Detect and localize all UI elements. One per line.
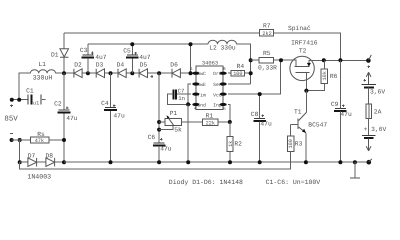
pin 6 Vcc (220, 60, 281, 95)
svg-text:1n: 1n (178, 95, 185, 102)
node SwC top junction (189, 42, 193, 46)
svg-text:C4: C4 (101, 100, 109, 107)
svg-text:R6: R6 (330, 73, 338, 80)
resistor R4 (228, 63, 251, 77)
battery charge direction arrow up (363, 72, 371, 84)
resistor R5 (251, 50, 294, 71)
node T2 gate / T1 collector junction (304, 89, 308, 93)
svg-text:SwE: SwE (197, 82, 206, 88)
note capacitor voltage (266, 179, 321, 186)
node output plus terminal (366, 55, 371, 68)
svg-text:D7: D7 (28, 153, 36, 160)
wire input column x=64 down to bottom rail (63, 73, 65, 162)
pin 1 SwC (190, 67, 199, 75)
svg-text:D6: D6 (170, 62, 178, 69)
wire L1 left lead down to plus terminal (19, 73, 30, 100)
svg-text:L1: L1 (38, 61, 46, 68)
battery B1 3.6V (362, 85, 386, 96)
resistor R2 (227, 122, 242, 162)
capacitor C2 (54, 101, 78, 123)
capacitor C5 (123, 44, 151, 73)
wire C1 right stub (42, 99, 45, 101)
svg-text:D1: D1 (51, 51, 59, 58)
resistor Rs (20, 131, 64, 144)
capacitor C3 (80, 44, 107, 73)
svg-text:Spínač: Spínač (288, 25, 311, 32)
diode D4 (117, 62, 127, 78)
node pin1 junction (189, 71, 193, 75)
wire multiplier output column down to P1 and C6 (158, 73, 160, 142)
capacitor C7 (167, 88, 191, 105)
diode D2 (74, 62, 82, 78)
potentiometer P1 (159, 110, 202, 134)
svg-text:85V: 85V (4, 115, 18, 123)
svg-text:1N4003: 1N4003 (27, 174, 51, 181)
wire Gnd column to bottom rail (187, 104, 189, 162)
wire ground return lower line (20, 162, 291, 169)
svg-text:IRF7416: IRF7416 (291, 39, 318, 46)
wire Spinac label (288, 25, 311, 32)
svg-text:47u: 47u (160, 145, 172, 152)
svg-text:C8: C8 (251, 111, 259, 118)
svg-text:Gnd: Gnd (197, 103, 206, 109)
svg-text:C1: C1 (26, 87, 34, 94)
diode D6 (170, 62, 180, 78)
svg-text:C6: C6 (148, 134, 156, 141)
svg-text:47u: 47u (260, 120, 272, 127)
node C5 top junction (130, 42, 134, 46)
fuse 2A (366, 88, 382, 135)
wire bottom rail (64, 161, 369, 163)
note diode types (169, 179, 243, 186)
svg-text:D8: D8 (46, 153, 54, 160)
svg-text:R2: R2 (234, 140, 242, 147)
node rail junction C4 (109, 160, 113, 164)
svg-text:1k: 1k (228, 141, 234, 147)
svg-text:10k: 10k (322, 71, 328, 80)
node rail junction C6 (157, 160, 161, 164)
svg-text:34063: 34063 (202, 61, 218, 67)
node R4/sense column junction (249, 71, 253, 75)
wire top line from D1 to R7 (64, 32, 259, 34)
pin 5 Inp (220, 103, 230, 122)
diode D1 (51, 33, 69, 73)
svg-text:2A: 2A (374, 108, 382, 115)
svg-text:100: 100 (288, 139, 294, 148)
diode D3 (96, 62, 105, 78)
node output minus terminal (367, 159, 372, 165)
svg-text:P1: P1 (170, 110, 178, 117)
capacitor C8 (251, 94, 272, 162)
node R6 top junction (322, 58, 326, 62)
node Rs right junction (62, 138, 66, 142)
node D8 cathode junction (62, 160, 66, 164)
capacitor C4 (101, 73, 125, 162)
pin 3 Tim (192, 93, 199, 96)
svg-text:D2: D2 (74, 62, 82, 69)
resistor R3 (287, 125, 302, 163)
svg-text:u1: u1 (33, 100, 39, 106)
diode D5 (139, 62, 147, 78)
wire plus input to C1 (12, 99, 28, 101)
svg-text:+ 3,6V: + 3,6V (364, 126, 387, 133)
diode D8 (27, 153, 64, 181)
svg-text:R3: R3 (295, 140, 303, 147)
svg-text:T1: T1 (294, 108, 302, 115)
resistor R6 (306, 60, 337, 90)
svg-text:C1-C6: Un=100V: C1-C6: Un=100V (266, 179, 321, 186)
svg-text:47k: 47k (35, 138, 44, 144)
svg-text:4u7: 4u7 (139, 54, 151, 61)
svg-text:0,33R: 0,33R (258, 64, 277, 71)
node D3/C4 junction (109, 71, 113, 75)
node rail junction C9 (338, 160, 342, 164)
transistor T1 BC547 (291, 91, 328, 163)
node D7 anode junction (18, 160, 22, 164)
svg-text:R1: R1 (206, 112, 214, 119)
wire diode row y=73.2 segments (56, 72, 193, 74)
wire SwC column from top line to pin1 (190, 44, 192, 73)
node D4/C5 junction (130, 71, 134, 75)
svg-text:5k: 5k (174, 127, 182, 134)
node rail junction ground symbol (353, 160, 357, 164)
node rail junction Gnd column (186, 160, 190, 164)
ground (350, 162, 360, 178)
capacitor C1 (26, 87, 41, 106)
svg-text:47u: 47u (66, 115, 78, 122)
node minus input terminal (10, 134, 22, 142)
capacitor C6 (148, 134, 172, 162)
svg-text:BC547: BC547 (308, 121, 327, 128)
node switch-line / C9 junction (338, 58, 342, 62)
svg-text:330uH: 330uH (33, 75, 53, 82)
svg-text:SwC: SwC (197, 71, 206, 77)
node rail junction R2 (228, 160, 232, 164)
svg-text:100: 100 (233, 71, 242, 77)
svg-text:47u: 47u (340, 111, 352, 118)
svg-text:C7: C7 (178, 88, 185, 95)
svg-text:C5: C5 (123, 47, 131, 54)
svg-text:D4: D4 (117, 62, 125, 69)
svg-text:22k: 22k (206, 121, 215, 127)
svg-text:R4: R4 (237, 63, 245, 70)
node P1 upper tap junction (157, 120, 161, 124)
svg-text:Rs: Rs (37, 131, 45, 138)
svg-text:3,6V: 3,6V (370, 88, 385, 95)
node P1 wiper tap junction (157, 128, 161, 132)
svg-text:D3: D3 (96, 62, 104, 69)
battery B2 3.6V (362, 126, 387, 138)
capacitor C9 (331, 60, 352, 162)
battery charge direction arrow down (366, 139, 371, 151)
inductor L1 (30, 61, 55, 81)
svg-text:R7: R7 (263, 22, 271, 29)
pin 8 DrC (220, 67, 227, 75)
node R5/sense column junction (249, 58, 253, 62)
node rail junction C8 (258, 160, 262, 164)
svg-text:C2: C2 (54, 101, 62, 108)
node Gnd pin junction (186, 102, 190, 106)
wire multiplier top line y=44 C3 to L2, and L2 to sense column (88, 44, 251, 84)
inductor L2 (208, 40, 237, 51)
svg-text:R5: R5 (263, 50, 271, 57)
node L1/D1/D2 junction (62, 71, 66, 75)
svg-text:C9: C9 (331, 101, 339, 108)
diode D7 (20, 153, 37, 167)
svg-text:L2 330u: L2 330u (209, 45, 236, 52)
wire minus terminal down to D7 (19, 140, 21, 162)
node R5/Vcc/gate-drive junction (279, 58, 283, 62)
transistor T2 IRF7416 (290, 39, 367, 90)
node rail junction T1 emitter (304, 160, 308, 164)
svg-text:D5: D5 (140, 62, 148, 69)
op-amp U1 MC34063 box (196, 61, 223, 110)
svg-text:Diody D1-D6: 1N4148: Diody D1-D6: 1N4148 (169, 179, 243, 186)
wire R7 to switch-line corner down to output rail (274, 33, 341, 60)
resistor R1 (202, 112, 230, 126)
svg-text:2k2: 2k2 (262, 31, 271, 37)
pin 4 Gnd (188, 103, 199, 112)
svg-text:T2: T2 (299, 47, 307, 54)
node D2/C3 junction (86, 71, 90, 75)
node R1/R2/Inp junction (228, 120, 232, 124)
pin 2 SwE (188, 82, 199, 104)
pin 7 Sen (220, 82, 251, 85)
node plus input terminal (4, 98, 21, 124)
svg-text:47u: 47u (113, 112, 125, 119)
svg-text:C3: C3 (80, 47, 88, 54)
svg-text:4u7: 4u7 (95, 54, 107, 61)
node D5/D6 multiplier output junction (150, 71, 161, 78)
resistor R7 (259, 22, 273, 37)
node Vcc/C8 junction (258, 92, 262, 96)
